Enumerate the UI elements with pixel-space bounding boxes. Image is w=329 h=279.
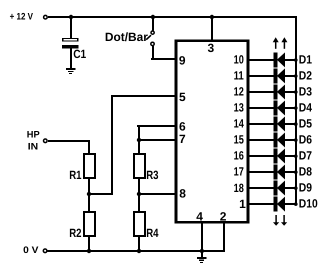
svg-text:4: 4 bbox=[196, 209, 203, 223]
svg-text:9: 9 bbox=[179, 54, 186, 68]
svg-text:15: 15 bbox=[234, 133, 244, 147]
svg-text:16: 16 bbox=[234, 149, 244, 163]
svg-text:D1: D1 bbox=[299, 52, 312, 66]
svg-text:14: 14 bbox=[234, 117, 244, 131]
svg-text:12: 12 bbox=[234, 85, 244, 99]
svg-text:1: 1 bbox=[239, 197, 246, 211]
svg-text:D5: D5 bbox=[299, 116, 312, 130]
svg-text:C1: C1 bbox=[73, 47, 86, 61]
svg-text:17: 17 bbox=[234, 165, 244, 179]
svg-text:D3: D3 bbox=[299, 84, 312, 98]
svg-text:11: 11 bbox=[234, 69, 244, 83]
svg-text:D10: D10 bbox=[299, 196, 318, 210]
svg-text:D7: D7 bbox=[299, 148, 312, 162]
svg-text:5: 5 bbox=[179, 90, 186, 104]
svg-text:D9: D9 bbox=[299, 180, 312, 194]
svg-text:18: 18 bbox=[234, 181, 244, 195]
svg-text:+ 12 V: + 12 V bbox=[10, 12, 34, 23]
svg-text:10: 10 bbox=[234, 53, 244, 67]
svg-text:D4: D4 bbox=[299, 100, 312, 114]
svg-text:D2: D2 bbox=[299, 68, 312, 82]
svg-text:HP: HP bbox=[27, 130, 41, 141]
svg-text:D6: D6 bbox=[299, 132, 312, 146]
svg-text:0 V: 0 V bbox=[23, 245, 39, 256]
svg-text:D8: D8 bbox=[299, 164, 312, 178]
svg-text:3: 3 bbox=[207, 41, 214, 55]
svg-text:R4: R4 bbox=[146, 226, 159, 240]
svg-text:13: 13 bbox=[234, 101, 244, 115]
svg-text:8: 8 bbox=[179, 187, 186, 201]
svg-text:R3: R3 bbox=[146, 168, 159, 182]
svg-text:7: 7 bbox=[179, 132, 186, 146]
svg-text:2: 2 bbox=[220, 209, 227, 223]
svg-text:R2: R2 bbox=[69, 226, 82, 240]
svg-text:Dot/Bar: Dot/Bar bbox=[105, 30, 148, 44]
svg-text:IN: IN bbox=[28, 142, 39, 153]
svg-text:R1: R1 bbox=[69, 168, 82, 182]
